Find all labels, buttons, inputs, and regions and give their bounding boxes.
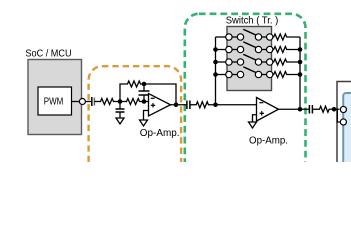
wire R4 to op-amp U2 — [209, 104, 257, 106]
resistor R8 (gain row 4) — [273, 72, 300, 78]
svg-text:PWM: PWM — [44, 96, 64, 107]
node output junction — [332, 107, 337, 112]
wire switch right bus — [299, 37, 301, 109]
green dashed boundary (gain stage) — [185, 14, 306, 174]
switch SW4 row — [216, 67, 273, 78]
ADC blue box — [343, 93, 351, 169]
node U1 output junction — [174, 102, 179, 107]
svg-text:Op-Amp.: Op-Amp. — [140, 128, 180, 139]
ADC outer box — [337, 82, 351, 170]
ground (op-amp U2 + input) — [249, 122, 257, 128]
wire switch left bus — [215, 37, 217, 105]
capacitor C5 (series, output) — [309, 105, 318, 114]
wire U1 output — [171, 104, 187, 106]
wire op-amp + input stub — [144, 111, 149, 121]
port PWM output pin — [79, 99, 85, 105]
node A junction — [118, 99, 123, 104]
switch block box — [227, 27, 272, 91]
wire pin to C-in — [85, 101, 91, 103]
switch SW2 row — [216, 42, 273, 53]
resistor R2 (node A to inverting input) — [125, 99, 141, 105]
svg-text:Op-Amp.: Op-Amp. — [249, 135, 288, 146]
capacitor C1 (series input) — [92, 97, 99, 106]
wire feedback left vertical — [120, 84, 126, 102]
SoC / MCU block — [25, 48, 81, 134]
PWM block — [38, 87, 72, 115]
svg-text:Switch ( Tr. ): Switch ( Tr. ) — [226, 16, 279, 27]
wire branch to lower pin — [334, 109, 340, 122]
wire to ADC input — [330, 108, 339, 110]
resistor R3 (feedback) — [126, 81, 142, 87]
resistor R7 (gain row 3) — [273, 59, 300, 65]
orange dashed boundary (filter stage) — [89, 66, 182, 176]
switch SW3 row — [216, 54, 273, 65]
capacitor C4 (series, stage 2 input) — [187, 101, 195, 110]
resistor R6 (gain row 2) — [273, 47, 300, 53]
wire op-amp U2 + input stub — [253, 115, 257, 122]
wire PWM to output pin — [72, 101, 80, 103]
node feedback junction — [142, 82, 147, 87]
wire R2 to op-amp — [141, 101, 149, 103]
wire R1 to node A — [115, 101, 125, 103]
wire feedback top to output — [142, 84, 176, 105]
node bus dots right — [298, 47, 303, 52]
resistor R4 (series, stage 2) — [195, 102, 210, 108]
ground (op-amp U1 + input) — [140, 120, 148, 126]
port ADC lower pin — [340, 119, 346, 125]
capacitor C3 (feedback) — [139, 84, 150, 102]
op-amp U1 — [149, 94, 171, 117]
wire U2 output — [279, 108, 310, 110]
node U2 output junction — [298, 107, 303, 112]
resistor R9 (series, output) — [319, 106, 331, 112]
node bus dots left — [213, 47, 218, 52]
ground (below C2) — [116, 118, 124, 124]
switch SW1 row — [216, 29, 273, 40]
node C junction — [213, 102, 218, 107]
resistor R5 (gain row 1) — [273, 34, 300, 40]
svg-text:SoC / MCU: SoC / MCU — [25, 48, 71, 59]
port ADC upper pin — [340, 106, 346, 112]
resistor R1 (series) — [99, 99, 115, 105]
node B junction — [142, 99, 147, 104]
op-amp U2 — [257, 98, 279, 122]
capacitor C2 (node A to ground) — [116, 102, 125, 119]
